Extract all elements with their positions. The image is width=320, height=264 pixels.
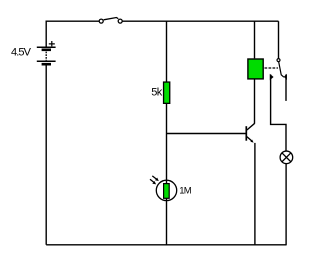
svg-text:1M: 1M [179, 186, 192, 197]
svg-text:5k: 5k [151, 87, 163, 99]
svg-text:4.5V: 4.5V [11, 47, 32, 59]
